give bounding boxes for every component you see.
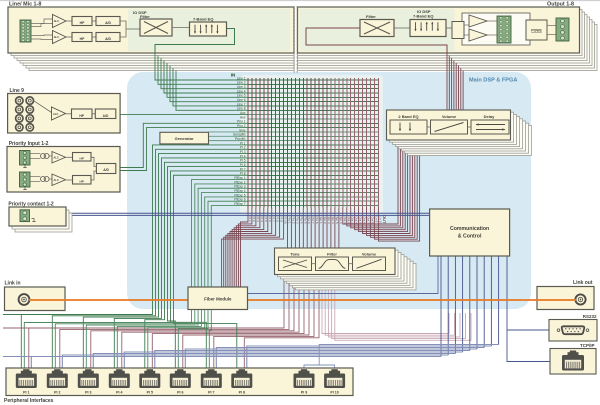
amp ALC Line 9	[52, 107, 66, 120]
svg-text:Spr 3: Spr 3	[327, 217, 331, 225]
box AD priority	[96, 164, 115, 174]
svg-text:Out 3: Out 3	[351, 217, 355, 225]
output card stack Output 1-8	[298, 10, 598, 71]
IO DSP tinted zone right card	[300, 9, 455, 51]
wire filter-EQ	[172, 27, 190, 29]
connector RJ45 PI 7	[201, 369, 222, 394]
svg-text:PI 4: PI 4	[260, 217, 264, 223]
filter U2 crossover	[140, 19, 172, 36]
card Priority Input 1-2	[7, 147, 120, 193]
svg-text:Ln 9: Ln 9	[374, 217, 378, 223]
svg-text:PI 6: PI 6	[268, 217, 272, 223]
wire RCA to amp	[34, 101, 52, 113]
connector J2 output terminal	[497, 16, 511, 43]
svg-text:Out 4: Out 4	[355, 217, 359, 225]
box Delay	[471, 120, 509, 134]
box HP priority 1	[66, 156, 73, 158]
wire bundle tone stack to PI jacks	[29, 275, 319, 374]
wire output input maroon	[306, 28, 447, 53]
svg-text:Fiber Module: Fiber Module	[204, 297, 232, 302]
generator G1	[160, 132, 209, 144]
svg-text:HP: HP	[79, 114, 84, 118]
svg-text:Out 2: Out 2	[347, 217, 351, 225]
svg-text:Out 8: Out 8	[370, 217, 374, 225]
svg-text:Line 9: Line 9	[10, 88, 25, 94]
box HP1	[72, 17, 92, 26]
svg-text:PI 2: PI 2	[252, 217, 256, 223]
svg-text:Main DSP & FPGA: Main DSP & FPGA	[469, 78, 517, 84]
card stack priority contact	[15, 213, 72, 232]
wire bundle output cards to EQ stack	[447, 53, 463, 125]
svg-text:PIo 7: PIo 7	[311, 217, 315, 224]
svg-text:Spr 2: Spr 2	[323, 217, 327, 225]
svg-text:HP: HP	[80, 179, 84, 183]
dashed card separators	[293, 6, 295, 74]
wire HP2-AD2	[92, 36, 96, 38]
transformer T1	[30, 153, 40, 155]
svg-text:PIo 5: PIo 5	[303, 217, 307, 224]
svg-text:PI 1: PI 1	[248, 217, 252, 223]
matrix routing grid columns	[248, 78, 378, 208]
connector RJ45 PI 8	[231, 369, 252, 394]
matrix row labels	[233, 76, 246, 206]
svg-text:Out 5: Out 5	[359, 217, 363, 225]
wires generator rows	[209, 131, 248, 133]
wire Line 9 to matrix row Aux	[116, 114, 248, 116]
card Line 9	[8, 94, 121, 134]
svg-text:Delay: Delay	[484, 114, 495, 119]
box POW2	[526, 20, 547, 40]
svg-text:IN: IN	[231, 73, 236, 78]
wire EQ output green	[155, 29, 235, 54]
wires tone-filter-volume	[312, 263, 316, 265]
wire bundle PIExp rows to jacks	[24, 180, 247, 373]
card Priority contact 1-2	[9, 207, 66, 226]
svg-text:Volume: Volume	[362, 251, 377, 256]
amp ALC A1	[53, 15, 67, 28]
svg-text:PI 10: PI 10	[284, 217, 288, 224]
svg-text:A/D: A/D	[105, 21, 111, 25]
box Volume	[431, 120, 468, 134]
svg-text:ALC: ALC	[54, 156, 59, 159]
svg-text:Link out: Link out	[573, 280, 593, 286]
box Volume mid	[353, 257, 386, 271]
svg-text:HP: HP	[80, 21, 85, 25]
wire audio link orange	[29, 299, 576, 301]
connector RJ45 PI 5	[139, 369, 160, 394]
box AD2	[96, 33, 120, 42]
wire stubs to image edge	[3, 314, 21, 316]
svg-text:PI 7: PI 7	[208, 391, 214, 395]
card 2 Band EQ Volume Delay	[387, 110, 511, 140]
svg-text:PI 1: PI 1	[23, 391, 29, 395]
wire HP1-AD1	[92, 20, 96, 22]
svg-text:PIExp 7: PIExp 7	[234, 202, 245, 206]
wire fiber to communication control	[248, 256, 439, 294]
Main DSP & FPGA region	[127, 72, 531, 309]
wire bundle line inputs to matrix rows	[155, 53, 248, 110]
box Fiber Module	[188, 287, 248, 310]
svg-text:ALC: ALC	[54, 179, 59, 182]
wire A1-HP1	[66, 20, 72, 22]
box 2 Band EQ	[390, 120, 427, 134]
svg-text:PI 9: PI 9	[301, 391, 307, 395]
amp ALC A2	[53, 31, 67, 44]
svg-text:PI 8: PI 8	[239, 391, 245, 395]
wire A2-HP2	[66, 36, 72, 38]
wire comm control to RS232 TCPIP	[507, 256, 549, 330]
svg-text:PI 7: PI 7	[272, 217, 276, 223]
svg-text:PIo 1: PIo 1	[288, 217, 292, 224]
box HP priority 2	[66, 179, 73, 181]
svg-text:7-Band EQ: 7-Band EQ	[193, 17, 213, 22]
svg-text:PI 3: PI 3	[85, 391, 91, 395]
wire bundle matrix to tone stack	[288, 208, 339, 264]
wire filter-EQ right	[394, 27, 410, 29]
amp right A4	[469, 29, 487, 41]
svg-text:RS232: RS232	[583, 314, 597, 319]
connector J3 power terminal	[556, 18, 569, 41]
wire AD join to filter	[120, 21, 126, 37]
connector RJ45 PI 10	[324, 369, 345, 394]
svg-text:HP: HP	[80, 37, 85, 41]
connector RJ45 TCPIP	[562, 355, 584, 371]
tone filter volume card stack	[278, 250, 417, 290]
svg-text:Generator: Generator	[175, 136, 195, 141]
svg-text:PI 4: PI 4	[116, 391, 122, 395]
matrix background panel	[240, 75, 383, 214]
connector priority input 1	[20, 151, 31, 166]
connector RJ45 PI 4	[109, 369, 130, 394]
svg-text:PIo 4: PIo 4	[299, 217, 303, 224]
svg-text:Spr 6: Spr 6	[339, 217, 343, 225]
svg-text:Peripheral Interfaces: Peripheral Interfaces	[4, 398, 54, 404]
svg-text:Spr 1: Spr 1	[319, 217, 323, 225]
box Communication and Control	[430, 209, 510, 256]
svg-text:& Control: & Control	[458, 234, 482, 240]
svg-text:ALC: ALC	[53, 112, 58, 116]
svg-text:ALC: ALC	[54, 19, 59, 23]
svg-text:Spr 4: Spr 4	[331, 217, 335, 225]
svg-text:HP: HP	[80, 156, 84, 160]
card Output 1-8	[298, 7, 580, 53]
wires POW2 to power connector	[547, 25, 556, 27]
connector priority input 2	[20, 172, 31, 187]
svg-text:PIo 8: PIo 8	[315, 217, 319, 224]
svg-text:A/D: A/D	[103, 114, 109, 118]
wire Priority 1 to matrix	[116, 123, 248, 167]
svg-text:Line/ Mic 1-8: Line/ Mic 1-8	[9, 2, 41, 8]
transformer T2	[30, 176, 40, 178]
wires J1 to amps	[31, 19, 53, 24]
wire EQ to DA	[446, 27, 452, 29]
box DA	[452, 22, 464, 39]
svg-text:Spr 5: Spr 5	[335, 217, 339, 225]
box Peripheral Interfaces	[6, 368, 353, 396]
connectors RCA Line 9	[16, 97, 34, 131]
connector coax link out	[575, 294, 585, 304]
amp ALC priority 1	[52, 152, 66, 164]
svg-text:Communication: Communication	[450, 226, 489, 232]
wires amps to connector	[487, 20, 497, 22]
EQ Volume Delay card stack	[390, 112, 532, 155]
box TCPIP	[550, 349, 596, 375]
connector DB9	[562, 326, 585, 334]
box Filter mid	[316, 257, 349, 271]
svg-text:TCP/IP: TCP/IP	[580, 343, 595, 348]
svg-text:7-Band EQ: 7-Band EQ	[413, 14, 433, 19]
svg-text:Out 7: Out 7	[367, 217, 371, 225]
svg-text:2 Band EQ: 2 Band EQ	[398, 114, 418, 119]
svg-text:PIo 3: PIo 3	[295, 217, 299, 224]
svg-text:PI 3: PI 3	[256, 217, 260, 223]
wires between EQ Volume Delay	[427, 126, 431, 128]
svg-text:Priority contact 1-2: Priority contact 1-2	[8, 201, 54, 207]
connector RJ45 PI 6	[170, 369, 191, 394]
svg-text:A/D: A/D	[105, 37, 111, 41]
svg-text:PI 5: PI 5	[264, 217, 268, 223]
svg-text:Filter: Filter	[327, 251, 337, 256]
wire bundle comm control verticals	[441, 256, 499, 357]
connector RJ45 PI 2	[47, 369, 68, 394]
box Tone	[279, 257, 312, 271]
ground symbols priority input	[24, 165, 26, 168]
connector RJ45 PI 1	[16, 369, 37, 394]
svg-text:Ln 10: Ln 10	[378, 217, 382, 225]
connector coax link in	[19, 294, 30, 305]
wire Priority 2 to matrix	[116, 128, 248, 171]
wire bundle pink return lines	[322, 281, 471, 340]
box HP Line9	[72, 109, 93, 119]
svg-text:PI 5: PI 5	[147, 391, 153, 395]
box 7-Band EQ left	[190, 22, 227, 36]
filter U3	[360, 20, 394, 37]
box AD Line9	[95, 109, 116, 119]
svg-text:Priority Input 1-2: Priority Input 1-2	[9, 141, 49, 147]
amp section box	[462, 13, 530, 45]
amp ALC priority 2	[52, 174, 66, 186]
input card stack Line/Mic 1-8	[11, 10, 294, 71]
svg-text:Volume: Volume	[442, 114, 457, 119]
card Line/Mic 1-8	[8, 7, 294, 53]
svg-text:PI 2: PI 2	[54, 391, 60, 395]
wire bundle matrix to fiber module	[222, 208, 284, 289]
svg-text:Out 1: Out 1	[343, 217, 347, 225]
svg-text:Filter: Filter	[366, 14, 376, 19]
svg-text:POW2: POW2	[531, 29, 542, 33]
svg-text:Tone: Tone	[290, 251, 300, 256]
ground symbol priority contact	[32, 219, 35, 222]
box HP2	[72, 33, 92, 42]
svg-text:PIo 2: PIo 2	[291, 217, 295, 224]
wire priority contact to communication control	[30, 212, 430, 214]
wire bundle matrix to EQ stack	[343, 140, 420, 241]
svg-text:PI 6: PI 6	[177, 391, 183, 395]
box AD1	[96, 17, 120, 26]
wire DA to amps	[464, 24, 469, 26]
matrix routing grid rows	[248, 80, 380, 206]
top border line	[0, 0, 600, 2]
connector priority contact	[20, 210, 30, 222]
box 7-Band EQ right	[410, 20, 446, 37]
svg-text:Link in: Link in	[5, 281, 21, 287]
svg-text:PI 9: PI 9	[280, 217, 284, 223]
svg-text:Output 1-8: Output 1-8	[547, 2, 574, 8]
wires HP to AD priority	[91, 157, 96, 166]
amp right A3	[469, 15, 487, 27]
svg-text:Filter: Filter	[140, 14, 150, 19]
connector RJ45 PI 9	[294, 369, 315, 394]
card Tone Filter Volume	[275, 248, 396, 275]
svg-text:A/D: A/D	[103, 168, 109, 172]
IO DSP tinted zone left card	[128, 9, 290, 51]
svg-text:OUT: OUT	[382, 215, 387, 224]
matrix column labels	[248, 217, 382, 225]
wires Line9 chain	[66, 113, 72, 115]
svg-text:PI 8: PI 8	[276, 217, 280, 223]
svg-text:PI 10: PI 10	[330, 391, 338, 395]
wire bundle control band to jacks	[31, 345, 498, 375]
box Link out	[537, 287, 594, 310]
connector J1 input terminal	[20, 20, 31, 42]
svg-text:PIo 6: PIo 6	[307, 217, 311, 224]
connector RJ45 PI 3	[78, 369, 99, 394]
svg-text:Out 6: Out 6	[363, 217, 367, 225]
box RS232	[549, 320, 597, 342]
svg-text:ALC: ALC	[54, 35, 59, 39]
wire bundle PI rows to jacks	[21, 145, 247, 373]
box Link in	[5, 287, 66, 311]
